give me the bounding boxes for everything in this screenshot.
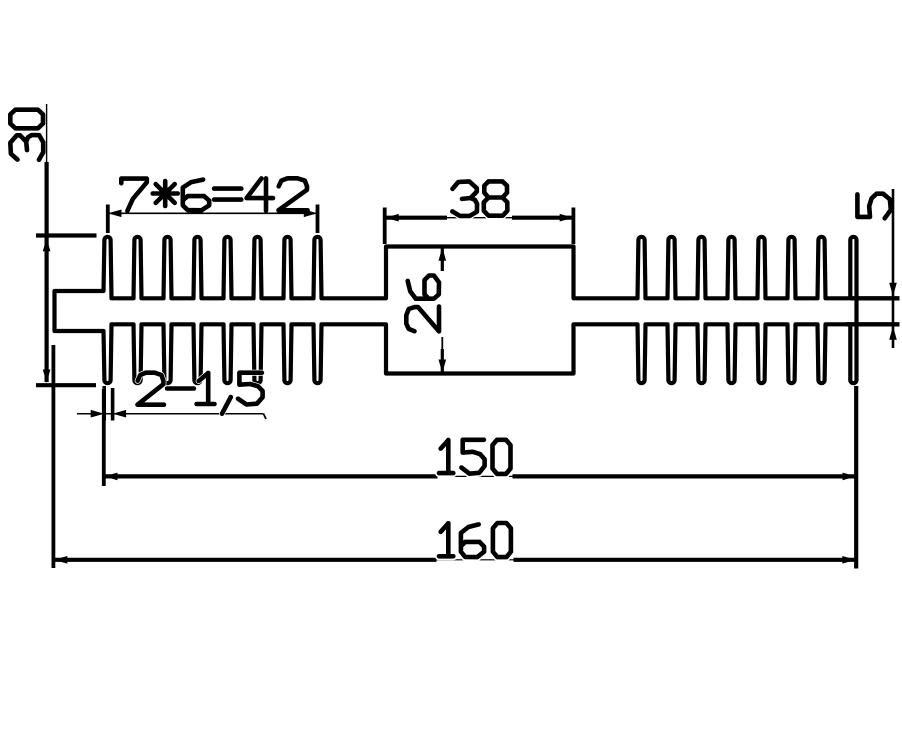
dim 26: arrow down — [439, 360, 447, 374]
dim 150: dimension line — [104, 475, 856, 477]
dim 150: arrow left — [104, 473, 118, 481]
dim text 7*6=42 — [121, 178, 307, 211]
dim text 38 — [452, 181, 507, 216]
dim 5: arrow up — [889, 326, 897, 340]
dim text 160 — [439, 523, 511, 557]
dim 7*6=42: dimension line — [109, 212, 317, 214]
dim 2-1,5: extension lines — [102, 386, 106, 421]
dim 160: extension line — [52, 345, 56, 568]
dim 5: arrow down — [889, 283, 897, 297]
dim 5: dimension line — [892, 189, 895, 348]
dim 38: dimension line — [385, 217, 573, 219]
dim 38: arrow right — [560, 214, 574, 222]
dim 160: arrow left — [54, 556, 68, 564]
dim text 30 — [10, 110, 43, 160]
dim 38: extension lines — [383, 208, 387, 245]
dim 26: dimension line — [441, 248, 444, 271]
dim 38: arrow left — [385, 214, 399, 222]
web bottom extension line (right) — [846, 322, 900, 326]
dim 150: arrow right — [843, 473, 857, 481]
dim 30: arrow down — [43, 370, 51, 384]
dim 30: dimension line upper thin part — [46, 104, 48, 164]
heatsink profile outline — [55, 237, 857, 383]
dim 7*6=42: arrow left — [108, 210, 122, 218]
dim text 5 — [857, 194, 890, 219]
dim 2-1,5: leader line — [77, 413, 264, 415]
dim 30: bottom extension line — [36, 383, 96, 387]
dim 2-1,5: arrow right — [91, 410, 105, 418]
dim 2-1,5: arrow left — [113, 410, 127, 418]
dim text 26 — [406, 276, 439, 332]
dim 30: top extension line — [36, 233, 97, 237]
dim 160: dimension line — [53, 559, 856, 561]
dim 26: arrow up — [439, 247, 447, 261]
dim 7*6=42: extension lines — [106, 205, 110, 234]
dim text 2-1,5 — [138, 373, 263, 414]
dim 160: arrow right — [842, 556, 856, 564]
dim 7*6=42: arrow right — [304, 210, 318, 218]
dim 150: extension lines — [102, 389, 106, 486]
dim text 150 — [439, 440, 511, 474]
web top extension line (right) — [850, 296, 899, 300]
dim 30: dimension line — [44, 162, 48, 382]
dim 30: arrow up — [43, 238, 51, 252]
